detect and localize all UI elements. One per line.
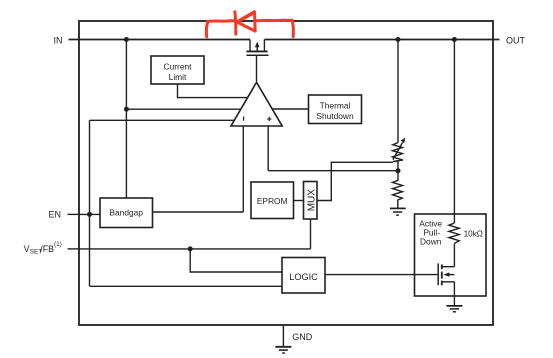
wire LOGIC output to pulldown gate <box>325 274 438 276</box>
node junction dot feedback top rail <box>396 37 401 42</box>
wire OUT to adjustable resistor R1 <box>397 40 399 143</box>
svg-text:EN: EN <box>48 210 61 220</box>
wire IN sense to error amp left edge <box>126 108 240 110</box>
transistor Q1 PMOS pass element source tab <box>249 40 251 51</box>
wire enable net to LOGIC lower input <box>90 285 283 287</box>
wire MUX output to adjustable resistor tap <box>317 162 393 200</box>
transistor Q1 body arrow <box>255 42 260 51</box>
ground for pulldown <box>446 306 462 312</box>
block LOGIC <box>282 258 325 294</box>
block Bandgap <box>100 198 153 228</box>
transistor Q1 drain tab <box>263 40 265 51</box>
wire IN sense vertical to bandgap <box>125 40 127 199</box>
svg-text:V: V <box>24 244 30 254</box>
svg-text:/FB: /FB <box>40 244 54 254</box>
svg-text:10kΩ: 10kΩ <box>464 230 483 239</box>
wire Current Limit to error amp <box>178 84 248 98</box>
node junction dot feedback divider <box>396 168 401 173</box>
svg-text:EPROM: EPROM <box>257 196 288 206</box>
wire EPROM to MUX <box>294 200 304 202</box>
wire non-inverting input to feedback node <box>268 170 398 172</box>
svg-text:IN: IN <box>54 35 63 45</box>
svg-text:LOGIC: LOGIC <box>289 272 318 282</box>
node junction dot IN sense to error amp <box>124 107 129 112</box>
block Active Pull-Down <box>415 214 487 296</box>
svg-text:OUT: OUT <box>506 35 526 45</box>
pin VSET/FB lead <box>68 248 79 250</box>
wire top rail from pass transistor drain to OUT <box>264 39 493 41</box>
wire enable net horizontal to error amp <box>90 119 235 121</box>
wire error amp to Thermal Shutdown <box>272 108 308 110</box>
ground for GND pin <box>275 347 291 353</box>
block Thermal Shutdown <box>309 95 362 124</box>
pin OUT lead <box>493 39 500 41</box>
diode D1 red hand-drawn body diode annotation <box>206 12 293 37</box>
wire MUX select from VSET line <box>310 219 312 249</box>
wire EN to Bandgap <box>79 213 100 215</box>
wire Q1 gate to error amp output <box>256 55 258 81</box>
wire Q2 source to ground <box>453 282 455 306</box>
resistor R3 10k pulldown <box>449 223 459 243</box>
transistor Q1 channel bar <box>246 50 267 52</box>
wire VSET to LOGIC upper input <box>190 249 282 272</box>
node junction dot on IN rail <box>124 37 129 42</box>
wire R1 to feedback node <box>397 161 399 180</box>
svg-text:Shutdown: Shutdown <box>316 111 354 121</box>
pin label VSET/FB(1) <box>24 241 62 255</box>
node junction dot OUT to pulldown <box>452 37 457 42</box>
wire VSET/FB line <box>79 248 311 250</box>
wire to error amp inverting input <box>242 126 244 212</box>
block EPROM <box>251 182 294 219</box>
svg-text:Thermal: Thermal <box>320 100 351 110</box>
wire top rail from IN to pass transistor source <box>79 39 250 41</box>
block MUX <box>304 182 318 220</box>
svg-text:MUX: MUX <box>306 189 317 212</box>
wire R3 to Q2 drain <box>453 243 455 266</box>
transistor Q1 gate bar <box>246 54 268 56</box>
pin GND lead <box>282 325 284 347</box>
node junction dot EN line <box>87 212 92 217</box>
op-amp U1 error amplifier <box>231 82 282 126</box>
outer IC boundary box <box>79 21 493 325</box>
wire OUT to 10k pulldown resistor <box>453 40 455 224</box>
svg-text:Current: Current <box>164 61 193 71</box>
resistor R1 adjustable feedback top <box>392 138 405 162</box>
node junction dot VSET line <box>188 246 193 251</box>
svg-text:Down: Down <box>420 236 442 246</box>
ground for feedback divider <box>390 208 406 215</box>
transistor Q2 NMOS pulldown <box>438 263 454 285</box>
wire Bandgap output <box>153 211 244 213</box>
svg-text:Bandgap: Bandgap <box>109 208 143 218</box>
wire enable net vertical <box>89 120 91 286</box>
wire error amp non-inverting input vertical <box>267 126 269 171</box>
pin EN lead <box>68 213 80 215</box>
resistor R2 feedback bottom <box>393 180 403 208</box>
pin IN lead <box>69 39 80 41</box>
svg-text:(1): (1) <box>54 241 62 248</box>
block Current Limit <box>151 56 204 84</box>
svg-text:GND: GND <box>292 332 313 342</box>
svg-text:Limit: Limit <box>169 72 187 82</box>
